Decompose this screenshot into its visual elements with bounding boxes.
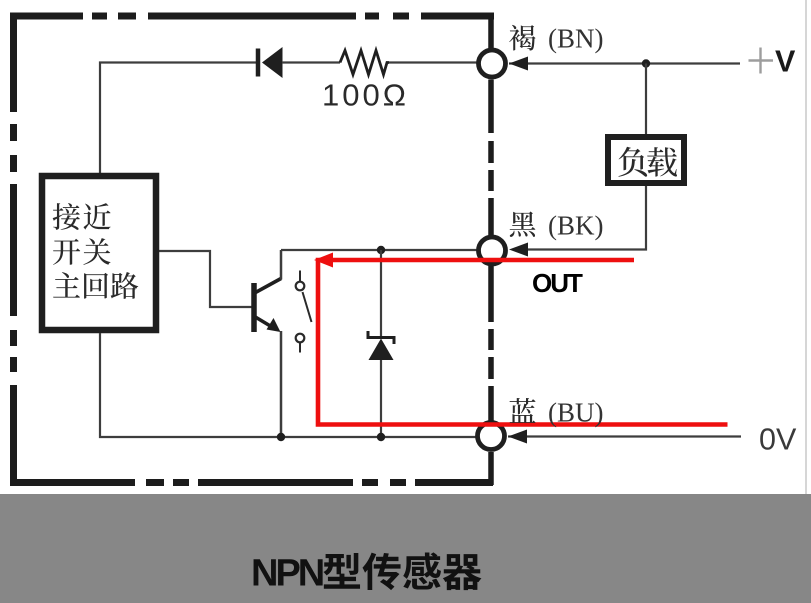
- sensor enclosure dashed border left: [10, 13, 17, 487]
- wire junction down to load: [645, 64, 647, 135]
- wire load bottom to BK terminal: [528, 186, 646, 250]
- svg-text:0V: 0V: [759, 422, 797, 456]
- wire main box bottom down to 0V rail: [100, 333, 491, 437]
- svg-text:(BU): (BU): [548, 398, 604, 428]
- sensor enclosure dashed border right: [488, 13, 494, 485]
- wire diode to resistor: [282, 61, 340, 63]
- arrowhead at BK terminal: [509, 243, 528, 257]
- zener diode ZD1: [368, 250, 394, 437]
- label 黑 (BK): [510, 212, 536, 237]
- wire 0V to BU terminal: [508, 435, 741, 437]
- label 褐 (BN): [509, 25, 535, 51]
- arrowhead at BU terminal: [508, 430, 527, 444]
- svg-text:OUT: OUT: [532, 268, 583, 298]
- svg-text:NPN: NPN: [251, 553, 323, 595]
- sensor enclosure dashed border top: [10, 13, 494, 20]
- sensor enclosure dashed border bottom: [10, 479, 493, 486]
- caption NPN型传感器: [251, 553, 323, 595]
- arrowhead at BN terminal: [509, 57, 528, 71]
- transistor Q1 (NPN): [254, 250, 281, 437]
- terminal BN (brown): [479, 50, 506, 77]
- wire main box to transistor base: [159, 251, 252, 307]
- junction node at +V rail: [642, 59, 650, 67]
- red current flow path: [314, 253, 728, 425]
- svg-text:100Ω: 100Ω: [322, 78, 409, 113]
- resistor R1 zigzag: [340, 51, 389, 75]
- main box label 接近开关主回路: [53, 203, 139, 299]
- OUT wire from BK terminal to transistor collector: [281, 249, 491, 251]
- output switch S1: [296, 271, 312, 353]
- svg-text:(BK): (BK): [548, 211, 604, 241]
- label +V: [749, 44, 797, 78]
- junction node zener/0V: [377, 433, 385, 441]
- svg-text:(BN): (BN): [548, 24, 604, 54]
- proximity switch main circuit box U1: [42, 176, 156, 330]
- load box label 负载: [618, 147, 677, 177]
- junction node zener top: [377, 246, 385, 254]
- load box U2: [608, 137, 684, 183]
- gray caption bar: [0, 494, 811, 603]
- wire +V to BN terminal: [509, 62, 740, 64]
- wire resistor to BN terminal: [389, 61, 480, 63]
- terminal BK (black): [479, 237, 506, 264]
- svg-text:V: V: [775, 44, 796, 78]
- junction node emitter/0V: [277, 433, 285, 441]
- terminal BU (blue): [478, 423, 505, 450]
- label 蓝 (BU): [510, 398, 536, 423]
- diode D1 (reverse-protection, pointing left): [258, 47, 283, 78]
- wire from main circuit box top up to +V rail: [100, 63, 256, 174]
